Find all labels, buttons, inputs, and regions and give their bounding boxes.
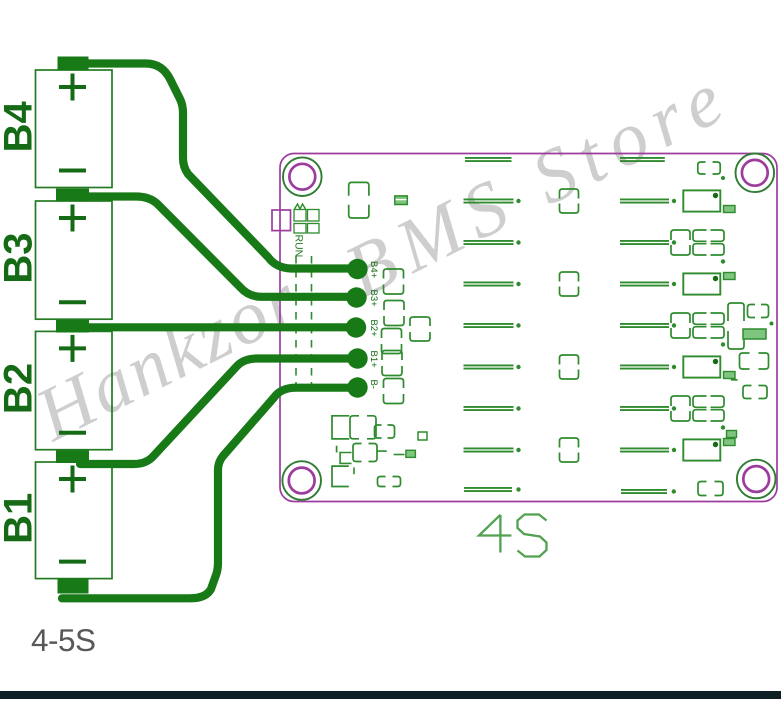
dashed line 1	[295, 256, 297, 394]
footprint near B4+ pad	[384, 269, 404, 294]
svg-text:B-: B-	[368, 380, 379, 390]
trace right row 3	[620, 282, 676, 286]
capacitor middle row 7	[560, 438, 579, 462]
battery B3 plus terminal	[59, 205, 86, 232]
label B1+	[368, 351, 379, 369]
battery B4 body	[36, 70, 113, 188]
cluster bottom-left	[332, 416, 427, 487]
trace middle row 4	[464, 323, 521, 327]
pad B3+	[346, 287, 366, 307]
battery B1 minus terminal	[59, 560, 86, 564]
wire B- (battery B1 minus to pad)	[62, 388, 357, 599]
connector RUN	[294, 204, 319, 233]
trace right row 0	[620, 158, 665, 161]
label 4-5S	[31, 622, 96, 658]
capacitor middle row 1	[560, 189, 579, 213]
transistor Q row 1	[683, 190, 735, 212]
watermark BMS Store	[332, 52, 744, 314]
battery B1 plus terminal	[59, 466, 86, 493]
trace middle row 7	[464, 448, 521, 452]
battery B4 plus terminal	[59, 74, 86, 101]
watermark Hankzor	[22, 256, 313, 458]
wire B4+ (battery B4 plus to pad)	[72, 64, 357, 269]
pad B4+	[347, 259, 367, 279]
battery B4 minus terminal	[59, 169, 86, 173]
resistor pair row 2	[671, 230, 725, 264]
mounting hole bottom-left	[282, 461, 321, 500]
mounting hole top-right	[736, 154, 775, 193]
footprint top-left bracket	[349, 182, 369, 218]
label B4	[0, 100, 41, 152]
trace middle row 0	[465, 158, 512, 161]
tab B4 top	[58, 57, 89, 71]
label 4S	[479, 515, 547, 557]
footprint near B3+ pad	[384, 301, 404, 326]
dashed line 2	[311, 256, 313, 394]
tab B4-B3 junction	[56, 189, 89, 202]
label B4+	[368, 261, 379, 279]
label B3+	[368, 290, 379, 308]
mounting hole top-left	[283, 157, 322, 196]
trace middle row 3	[464, 282, 521, 286]
footprint near B1+ pad	[382, 351, 402, 376]
svg-text:B4: B4	[0, 100, 41, 152]
svg-text:B2: B2	[0, 363, 41, 414]
label B2+	[368, 320, 379, 338]
pad B1+	[347, 348, 367, 368]
svg-text:B1+: B1+	[368, 351, 379, 369]
trace middle row 1	[464, 199, 521, 203]
svg-text:4-5S: 4-5S	[31, 622, 96, 658]
component small rect top	[395, 196, 408, 205]
trace middle row 2	[464, 240, 521, 244]
footprint near B- pad	[384, 379, 404, 404]
trace right row 8	[621, 489, 676, 493]
pad C top-right	[698, 162, 725, 180]
label RUN	[293, 235, 305, 258]
battery B2 minus terminal	[59, 431, 86, 435]
trace right row 1	[620, 199, 676, 203]
trace right row 2	[620, 240, 676, 244]
battery B1 body	[36, 462, 113, 579]
wire B3+ (B4/B3 junction to pad)	[80, 197, 356, 297]
capacitor middle row 5	[560, 355, 579, 379]
trace right row 5	[620, 365, 676, 369]
transistor Q row 7	[683, 439, 735, 461]
battery B2 body	[36, 331, 113, 449]
resistor pair row 4	[671, 313, 725, 347]
label B-	[368, 380, 379, 390]
svg-text:B2+: B2+	[368, 320, 379, 338]
svg-text:B3+: B3+	[368, 290, 379, 308]
battery B3 minus terminal	[59, 300, 86, 304]
tab B3-B2 junction	[56, 320, 89, 333]
pad C bottom-right	[698, 482, 723, 496]
tab B2-B1 junction	[56, 451, 89, 464]
trace middle row 6	[464, 406, 521, 410]
capacitor middle row 3	[560, 272, 579, 296]
trace right row 6	[620, 406, 676, 410]
trace middle row 8	[464, 487, 521, 491]
mounting hole bottom-right	[737, 460, 776, 499]
cluster right-edge	[727, 303, 774, 438]
label B3	[0, 233, 41, 284]
battery B3 body	[36, 201, 113, 319]
label B1	[0, 493, 41, 544]
svg-text:RUN: RUN	[293, 235, 305, 258]
trace middle row 5	[464, 365, 521, 369]
label B2	[0, 363, 41, 414]
svg-text:B4+: B4+	[368, 261, 379, 279]
svg-text:B3: B3	[0, 233, 41, 284]
tab B1 bottom	[58, 579, 89, 594]
resistor pair row 6	[671, 396, 725, 430]
pad B-	[347, 377, 367, 397]
svg-text:B1: B1	[0, 493, 41, 544]
bottom dark bar	[0, 691, 781, 699]
transistor Q row 3	[683, 273, 735, 295]
transistor Q row 5	[683, 356, 735, 378]
trace right row 4	[620, 323, 676, 327]
footprint near B2+ pad	[382, 317, 431, 354]
wire B2+ (B3/B2 junction to pad)	[80, 323, 356, 331]
wire B1+ (B2/B1 junction to pad)	[80, 359, 357, 465]
battery B2 plus terminal	[59, 335, 86, 362]
pad B2+	[346, 317, 366, 337]
PCB board outline	[272, 154, 777, 502]
trace right row 7	[620, 448, 676, 452]
